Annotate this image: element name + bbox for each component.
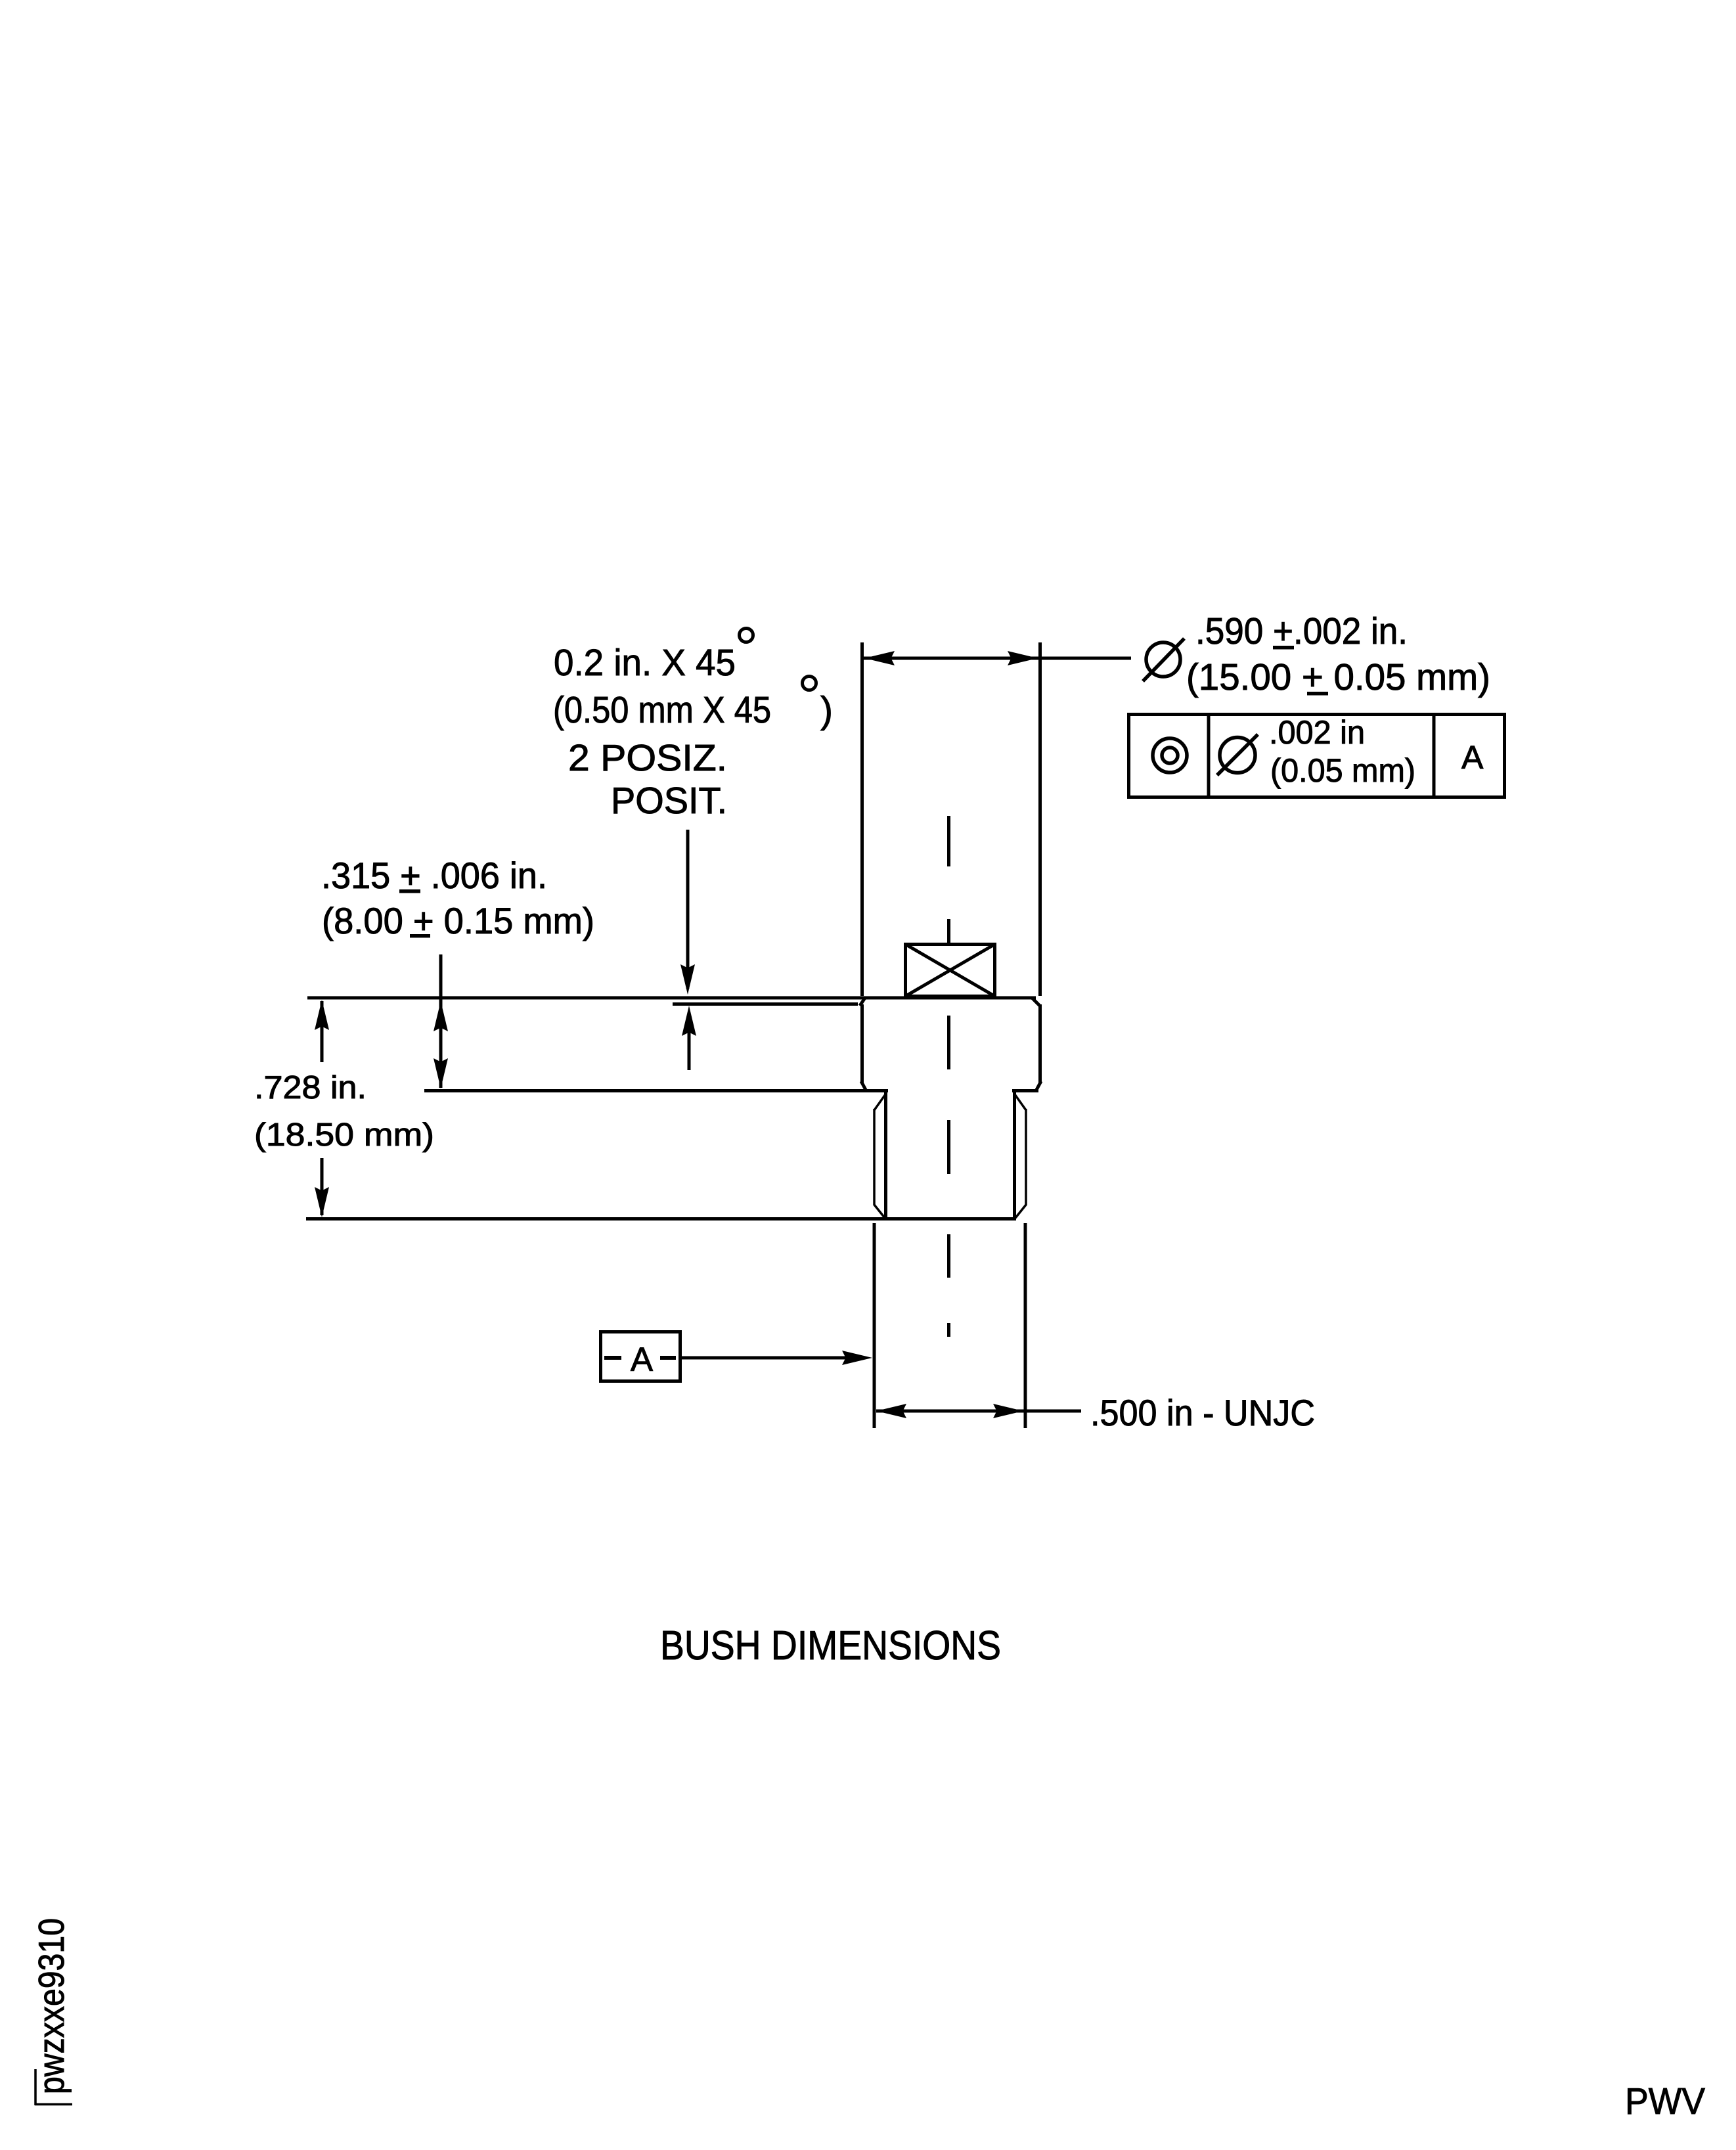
svg-text:BUSH DIMENSIONS: BUSH DIMENSIONS [660, 1623, 1001, 1668]
thread crest lines [874, 1109, 1026, 1205]
.590 dimension text [1186, 610, 1490, 698]
datum leader with arrow [682, 1351, 872, 1365]
flange top line with left extension [307, 997, 1036, 1000]
svg-text:(18.50 mm): (18.50 mm) [254, 1117, 434, 1153]
title text [660, 1623, 1001, 1668]
flange bottom chamfer corners [861, 1081, 1041, 1090]
step line with left extension [424, 1089, 1038, 1092]
.500 dimension line with arrows [876, 1404, 1081, 1418]
concentricity symbol [1153, 738, 1187, 773]
flange sides [862, 1004, 1040, 1083]
svg-text:.590 +.002 in.: .590 +.002 in. [1195, 610, 1408, 652]
diameter symbol in frame [1217, 734, 1258, 775]
flange top chamfer corners [860, 998, 1040, 1006]
.315 dimension text [321, 855, 594, 941]
diameter .590 dimension extension lines [862, 642, 1040, 996]
.315 dimension line with arrows [434, 954, 448, 1088]
svg-text:(8.00 + 0.15 mm): (8.00 + 0.15 mm) [322, 900, 594, 941]
svg-text:(0.05 mm): (0.05 mm) [1270, 752, 1415, 789]
svg-text:0.2 in. X 45: 0.2 in. X 45 [554, 642, 736, 684]
page code text [1625, 2080, 1705, 2122]
svg-text:): ) [820, 689, 833, 731]
svg-text:POSIT.: POSIT. [611, 780, 727, 822]
corner bracket mark [35, 2069, 72, 2105]
.728 dimension line with arrows [315, 1000, 329, 1217]
thread top chamfers [874, 1094, 1026, 1110]
svg-text:(0.50 mm X 45: (0.50 mm X 45 [553, 689, 771, 731]
.728 dimension text [254, 1070, 434, 1153]
svg-text:2 POSIZ.: 2 POSIZ. [568, 737, 727, 779]
diameter .590 dimension line with arrows [864, 651, 1131, 665]
.500 extension lines [874, 1223, 1025, 1428]
chamfer opposing up arrow [682, 1006, 696, 1070]
chamfer second line [673, 1002, 858, 1006]
svg-text:(15.00 + 0.05 mm): (15.00 + 0.05 mm) [1186, 656, 1490, 698]
svg-text:.500 in - UNJC: .500 in - UNJC [1090, 1392, 1315, 1433]
chamfer leader line with down arrow [680, 830, 695, 995]
rotated figure code text [31, 1918, 72, 2094]
svg-text:.728 in.: .728 in. [254, 1070, 367, 1106]
svg-text:PWV: PWV [1625, 2080, 1705, 2122]
svg-text:A: A [1461, 739, 1484, 776]
svg-text:pwzxxe9310: pwzxxe9310 [31, 1918, 72, 2094]
svg-text:.002 in: .002 in [1269, 714, 1365, 751]
thread insert crosshatch box [906, 945, 995, 997]
svg-text:A: A [631, 1341, 653, 1378]
thread bottom chamfers [874, 1205, 1026, 1218]
part bottom line with left extension [306, 1217, 1016, 1221]
centerline [947, 816, 950, 1337]
datum A box [601, 1332, 680, 1381]
chamfer note text [553, 629, 833, 822]
feature control frame [1129, 714, 1505, 797]
tolerance text in frame [1269, 714, 1484, 789]
.500 thread callout text [1090, 1392, 1315, 1433]
thread root lines [886, 1090, 1015, 1219]
svg-text:.315 + .006 in.: .315 + .006 in. [321, 855, 547, 896]
diameter symbol for .590 [1143, 638, 1184, 681]
